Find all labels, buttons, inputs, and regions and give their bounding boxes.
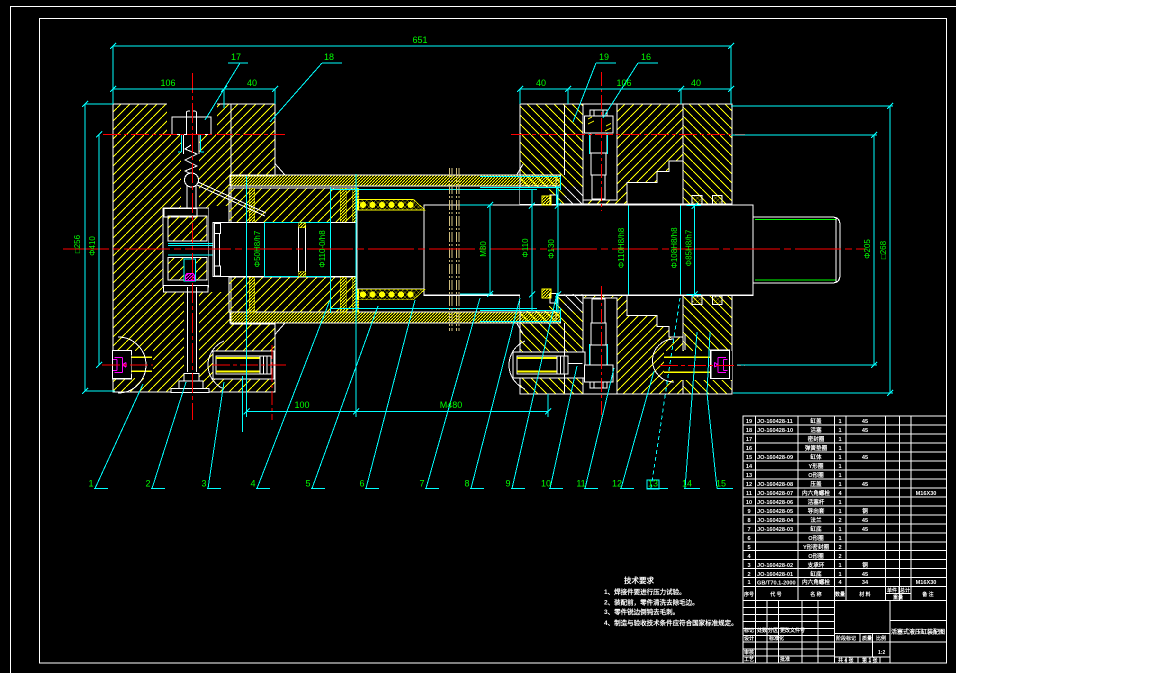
svg-text:JO-160428-01: JO-160428-01 xyxy=(757,572,793,578)
main axis xyxy=(63,248,866,250)
barrel wall insert segment lower xyxy=(520,312,561,323)
svg-text:3: 3 xyxy=(201,479,206,489)
valve insert upper xyxy=(168,216,207,241)
svg-text:651: 651 xyxy=(412,35,427,45)
svg-text:17: 17 xyxy=(231,52,241,62)
svg-text:技术要求: 技术要求 xyxy=(624,575,654,585)
dim 130 xyxy=(557,186,559,313)
svg-text:Y形密封圈: Y形密封圈 xyxy=(803,543,830,551)
svg-text:密封圈: 密封圈 xyxy=(808,435,825,443)
right end cap upper xyxy=(683,104,732,204)
bolt hole lower-left of right assembly xyxy=(513,352,585,378)
gland seal strip u1 xyxy=(249,188,255,223)
right end cap lower xyxy=(683,294,732,394)
svg-text:压盖: 压盖 xyxy=(810,480,822,488)
svg-text:45: 45 xyxy=(862,572,868,578)
svg-text:Φ110-0/h8: Φ110-0/h8 xyxy=(318,230,327,268)
svg-text:JO-160428-02: JO-160428-02 xyxy=(757,563,793,569)
svg-text:代 号: 代 号 xyxy=(769,591,781,598)
bolt pocket bottom left assembly xyxy=(213,351,274,379)
dim 106/40 left xyxy=(113,88,275,90)
svg-text:1: 1 xyxy=(838,446,841,452)
rod section B main xyxy=(424,205,753,295)
dim 110 xyxy=(531,190,533,310)
svg-text:1: 1 xyxy=(838,464,841,470)
leader 12 xyxy=(620,371,654,489)
svg-text:5: 5 xyxy=(747,545,750,551)
svg-text:34: 34 xyxy=(862,580,869,586)
plunger axis xyxy=(192,73,194,420)
leader 11 xyxy=(584,368,614,489)
svg-text:1: 1 xyxy=(838,482,841,488)
right bolt axis upper xyxy=(601,72,603,211)
svg-text:铜: 铜 xyxy=(862,561,868,569)
right assembly bore dims xyxy=(628,206,630,295)
svg-text:内六角螺栓: 内六角螺栓 xyxy=(802,578,830,586)
o-ring flange joint lower xyxy=(542,289,551,298)
right flange block lower xyxy=(520,294,583,394)
svg-text:3、零件锐边倒钝去毛刺。: 3、零件锐边倒钝去毛刺。 xyxy=(604,607,679,616)
bolt left-assembly lower: shaft xyxy=(216,356,260,374)
valve insert lower xyxy=(168,258,207,281)
output shaft threaded end xyxy=(753,217,840,283)
svg-text:40: 40 xyxy=(536,78,546,88)
svg-text:JO-160428-07: JO-160428-07 xyxy=(757,491,793,497)
svg-text:M80: M80 xyxy=(479,241,488,257)
svg-text:106: 106 xyxy=(160,78,175,88)
valve lower pocket xyxy=(184,259,196,281)
o-ring end cap u1 xyxy=(692,196,702,205)
flange hub white-hatch patch lower xyxy=(565,294,583,312)
bottom bolt left xyxy=(102,364,153,366)
svg-text:工艺: 工艺 xyxy=(744,656,754,663)
row lines xyxy=(743,425,947,577)
svg-text:设计: 设计 xyxy=(744,635,754,642)
top bolt circle left xyxy=(103,134,285,136)
bottom bolt: hole tip xyxy=(592,299,605,323)
left vertical dim 256 xyxy=(84,104,86,391)
svg-text:2: 2 xyxy=(838,545,841,551)
bolt right magenta: shaft xyxy=(664,355,711,375)
svg-text:8: 8 xyxy=(747,518,750,524)
gland right face xyxy=(356,188,358,313)
svg-text:45: 45 xyxy=(862,419,868,425)
top bolt: hole tip xyxy=(592,175,605,199)
svg-text:14: 14 xyxy=(682,479,692,489)
thread end line xyxy=(835,217,837,283)
gland step notch lower xyxy=(627,294,683,337)
leader 3 xyxy=(207,382,224,489)
svg-text:缸底: 缸底 xyxy=(810,525,822,533)
svg-text:106: 106 xyxy=(616,78,631,88)
spring xyxy=(185,145,197,174)
bottom bolt: shaft xyxy=(590,345,607,365)
drain channel xyxy=(184,287,199,378)
o-ring end cap l2 xyxy=(713,296,723,305)
svg-text:铜: 铜 xyxy=(862,507,868,515)
column lines xyxy=(756,416,912,601)
head bore xyxy=(209,206,229,292)
lever arm xyxy=(198,182,266,213)
piston joint cyan xyxy=(264,223,266,277)
svg-text:5: 5 xyxy=(305,479,310,489)
svg-text:□256: □256 xyxy=(73,234,82,253)
svg-text:14: 14 xyxy=(746,464,753,470)
leader 7 xyxy=(425,298,480,489)
svg-text:更改文件号: 更改文件号 xyxy=(780,627,805,634)
svg-text:15: 15 xyxy=(716,479,726,489)
svg-text:活塞式液压缸装配图: 活塞式液压缸装配图 xyxy=(891,628,945,636)
bolt left magenta: shaft xyxy=(131,355,152,374)
bottom bolt right xyxy=(660,365,745,367)
leader 14 xyxy=(684,332,700,489)
svg-text:M16X30: M16X30 xyxy=(916,491,937,497)
svg-text:9: 9 xyxy=(747,509,750,515)
bolt right step xyxy=(684,334,686,350)
svg-text:18: 18 xyxy=(746,428,752,434)
svg-text:Φ110: Φ110 xyxy=(521,238,530,258)
cavity floor xyxy=(163,286,208,292)
spring pocket walls xyxy=(184,134,200,154)
bolt right-assembly lower-left: head xyxy=(557,356,568,374)
valve cavity xyxy=(163,208,209,287)
inner border frame xyxy=(40,19,947,664)
svg-text:JO-160428-04: JO-160428-04 xyxy=(757,518,794,524)
svg-text:1: 1 xyxy=(838,428,841,434)
leader 9 xyxy=(511,298,556,489)
leader 17 xyxy=(205,63,248,120)
svg-text:JO-160428-09: JO-160428-09 xyxy=(757,455,793,461)
svg-text:共 4 张: 共 4 张 xyxy=(838,657,855,664)
svg-text:40: 40 xyxy=(691,78,701,88)
bottom bolt: thread xyxy=(591,323,606,345)
plunger cap xyxy=(172,117,211,135)
leader 15 xyxy=(707,332,733,489)
svg-text:1: 1 xyxy=(838,437,841,443)
drain foot step1 xyxy=(184,374,199,382)
rod mid section xyxy=(357,210,424,289)
svg-text:Φ85H8/h7: Φ85H8/h7 xyxy=(685,229,694,266)
svg-text:总计: 总计 xyxy=(900,587,910,594)
svg-text:标准化: 标准化 xyxy=(768,635,784,642)
svg-text:4、制造与验收技术条件应符合国家标准规定。: 4、制造与验收技术条件应符合国家标准规定。 xyxy=(604,618,738,627)
svg-text:阶段标记: 阶段标记 xyxy=(836,635,856,642)
svg-text:活塞: 活塞 xyxy=(810,426,822,434)
svg-text:批准: 批准 xyxy=(780,656,790,663)
leader 18 xyxy=(270,63,342,122)
o-ring flange joint upper xyxy=(542,196,551,205)
svg-text:8: 8 xyxy=(464,479,469,489)
svg-text:Y形圈: Y形圈 xyxy=(809,462,824,470)
leader 8 xyxy=(470,298,520,489)
svg-text:JO-160428-05: JO-160428-05 xyxy=(757,509,793,515)
cylinder head left flange plate xyxy=(113,104,275,392)
svg-text:6: 6 xyxy=(747,536,750,542)
svg-text:O形圈: O形圈 xyxy=(808,471,824,479)
svg-text:1、焊接件要进行压力试验。: 1、焊接件要进行压力试验。 xyxy=(604,587,686,596)
svg-text:18: 18 xyxy=(324,52,334,62)
flange hub notch lower xyxy=(550,293,557,303)
svg-text:审核: 审核 xyxy=(744,649,754,656)
spring channel xyxy=(181,134,199,208)
leader 1 xyxy=(94,384,143,489)
thread minor line top xyxy=(755,219,836,221)
left vertical dim 410 xyxy=(98,135,100,366)
svg-text:分区: 分区 xyxy=(768,627,778,634)
gland seal strip l1 xyxy=(249,277,255,312)
svg-text:1: 1 xyxy=(838,500,841,506)
svg-text:处数: 处数 xyxy=(756,627,768,634)
svg-text:缸底: 缸底 xyxy=(810,570,822,578)
bottom bolt pocket right xyxy=(583,298,617,394)
right gland body lower xyxy=(583,294,683,394)
dim 651 line xyxy=(113,45,731,47)
svg-text:1: 1 xyxy=(838,455,841,461)
svg-text:10: 10 xyxy=(541,479,551,489)
svg-text:支承环: 支承环 xyxy=(807,561,825,569)
valve cyan line 1 xyxy=(168,243,213,245)
top bolt circle right xyxy=(511,134,745,136)
left bolt circle vertical xyxy=(271,345,273,420)
valve magenta dome xyxy=(186,274,195,281)
svg-text:M16X30: M16X30 xyxy=(916,580,937,586)
svg-text:JO-160428-11: JO-160428-11 xyxy=(757,419,793,425)
left grid rows xyxy=(743,608,835,657)
svg-text:12: 12 xyxy=(612,479,622,489)
svg-text:Φ205: Φ205 xyxy=(863,239,872,259)
svg-text:活塞杆: 活塞杆 xyxy=(808,498,825,506)
svg-text:序号: 序号 xyxy=(743,591,754,598)
svg-text:45: 45 xyxy=(862,482,868,488)
svg-text:1: 1 xyxy=(747,580,750,586)
plunger pocket guide cyan xyxy=(178,134,204,152)
rod ring seal upper xyxy=(299,223,306,228)
o-ring end cap l1 xyxy=(692,296,702,305)
plunger pocket xyxy=(167,103,217,134)
head joint line xyxy=(230,104,232,188)
svg-text:13: 13 xyxy=(746,473,752,479)
svg-text:第 1 张: 第 1 张 xyxy=(862,657,879,664)
svg-text:O形圈: O形圈 xyxy=(808,552,824,560)
wear ring strip upper xyxy=(358,200,425,211)
leader 13 dashed xyxy=(647,480,668,489)
svg-text:2、装配前，零件清洗去除毛边。: 2、装配前，零件清洗去除毛边。 xyxy=(604,598,699,607)
valve seat xyxy=(164,208,197,217)
bolt hole lower-right magenta xyxy=(664,351,732,380)
piston rod band xyxy=(213,223,357,277)
svg-text:JO-160428-10: JO-160428-10 xyxy=(757,428,793,434)
thread minor line bottom xyxy=(755,279,836,281)
svg-text:M480: M480 xyxy=(440,400,463,410)
bolt right pocket xyxy=(711,350,730,378)
flange lower-left cutout lower xyxy=(520,294,549,311)
svg-text:2: 2 xyxy=(145,479,150,489)
bottom dim 100 / M480 xyxy=(247,411,549,413)
cylinder barrel top wall xyxy=(230,175,556,186)
svg-text:Φ130: Φ130 xyxy=(547,239,556,259)
leader 2 xyxy=(151,382,186,489)
svg-text:2: 2 xyxy=(838,518,841,524)
rod joint cyan 2 xyxy=(329,187,331,313)
svg-text:JO-160428-06: JO-160428-06 xyxy=(757,500,793,506)
svg-text:JO-160428-03: JO-160428-03 xyxy=(757,527,793,533)
svg-text:1: 1 xyxy=(838,572,841,578)
stem below ball xyxy=(186,186,188,208)
bolt right-assembly lower-left: shaft xyxy=(517,356,557,374)
svg-text:内六角螺栓: 内六角螺栓 xyxy=(802,489,830,497)
svg-text:备 注: 备 注 xyxy=(921,591,933,598)
header row xyxy=(743,587,947,601)
valve cyan line 2 xyxy=(168,245,213,247)
bolt right magenta head xyxy=(715,358,728,373)
gland block lower xyxy=(229,277,357,312)
right flange block upper xyxy=(520,104,583,204)
flange joint line lower xyxy=(565,323,583,393)
svg-text:11: 11 xyxy=(576,479,585,489)
svg-text:数量: 数量 xyxy=(835,591,845,598)
svg-text:□268: □268 xyxy=(879,240,888,259)
plunger stem top xyxy=(187,111,197,134)
drain base plate xyxy=(171,389,209,393)
gland step notch upper xyxy=(627,161,683,204)
left grid columns xyxy=(756,601,835,664)
svg-text:1: 1 xyxy=(838,509,841,515)
flange hub notch upper xyxy=(550,195,557,205)
svg-text:法兰: 法兰 xyxy=(810,516,822,524)
right vertical dim 205 xyxy=(873,135,875,365)
svg-text:1: 1 xyxy=(838,563,841,569)
piston face bracket lower xyxy=(215,266,221,276)
bolt pocket bottom-left magenta bolt xyxy=(113,351,153,378)
gland seal strip u3 xyxy=(353,188,359,223)
svg-text:45: 45 xyxy=(862,455,868,461)
svg-text:1: 1 xyxy=(838,527,841,533)
svg-text:材 料: 材 料 xyxy=(859,591,870,598)
svg-text:2: 2 xyxy=(838,554,841,560)
svg-text:2: 2 xyxy=(747,572,750,578)
svg-text:10: 10 xyxy=(746,500,752,506)
flange joint line upper xyxy=(565,105,583,175)
flange hub white-hatch patch upper xyxy=(565,187,583,205)
right bolt axis lower xyxy=(601,286,603,420)
flange lower-left cutout upper xyxy=(520,187,549,204)
gland seal strip u2 xyxy=(340,188,346,223)
rod ring seal lower xyxy=(299,272,306,277)
svg-text:Φ410: Φ410 xyxy=(88,236,97,256)
wear ring strip lower xyxy=(358,289,425,300)
svg-text:45: 45 xyxy=(862,518,868,524)
rod thread dim M80 xyxy=(489,205,491,294)
svg-text:名 称: 名 称 xyxy=(810,591,821,598)
piston face bracket upper xyxy=(215,224,221,234)
o-ring end cap u2 xyxy=(713,196,723,205)
svg-text:40: 40 xyxy=(247,78,257,88)
svg-text:Φ50H8/h7: Φ50H8/h7 xyxy=(253,230,262,267)
svg-text:比例: 比例 xyxy=(876,635,886,642)
spot face arc right bolt xyxy=(509,341,525,389)
drain foot step2 xyxy=(179,381,203,389)
svg-text:17: 17 xyxy=(746,437,752,443)
svg-text:12: 12 xyxy=(746,482,752,488)
svg-text:1: 1 xyxy=(838,419,841,425)
barrel wall insert segment upper xyxy=(520,175,561,186)
spot face arc magenta bolt xyxy=(653,339,675,382)
svg-text:6: 6 xyxy=(359,479,364,489)
cylinder barrel bottom wall xyxy=(230,312,556,323)
svg-text:GB/T70.1-2000: GB/T70.1-2000 xyxy=(757,581,796,587)
svg-text:1: 1 xyxy=(838,473,841,479)
cyan vline at flange notch upper xyxy=(556,186,558,312)
drain rod xyxy=(187,287,189,372)
bolt left magenta: pocket xyxy=(112,351,131,379)
bolt left-assembly lower: head xyxy=(260,356,271,374)
svg-text:16: 16 xyxy=(746,446,752,452)
middle verticals xyxy=(889,601,891,664)
right gland body upper xyxy=(583,104,683,204)
svg-text:7: 7 xyxy=(419,479,424,489)
gland block upper xyxy=(229,188,357,223)
svg-text:1:2: 1:2 xyxy=(878,650,885,656)
valve cyan line 3 xyxy=(168,254,213,256)
svg-text:100: 100 xyxy=(294,400,309,410)
svg-text:缸体: 缸体 xyxy=(810,453,822,461)
bottom bolt: head xyxy=(585,365,614,382)
svg-text:9: 9 xyxy=(505,479,510,489)
bolt left magenta: head xyxy=(113,358,126,373)
svg-text:1: 1 xyxy=(88,479,93,489)
top bolt: shaft xyxy=(590,133,607,153)
svg-text:45: 45 xyxy=(862,527,868,533)
leader 16 xyxy=(603,63,658,118)
rod ring xyxy=(298,227,300,273)
svg-text:16: 16 xyxy=(641,52,651,62)
svg-text:JO-160428-08: JO-160428-08 xyxy=(757,482,793,488)
leader 4 xyxy=(256,300,330,489)
spot face arc left bolt2 xyxy=(208,341,224,389)
svg-text:45: 45 xyxy=(862,428,868,434)
ball xyxy=(185,173,199,187)
leader 10 xyxy=(549,366,577,489)
top bolt: thread xyxy=(591,153,606,175)
svg-text:4: 4 xyxy=(250,479,255,489)
tube weld chamfer lower-left xyxy=(275,324,523,335)
svg-text:标记: 标记 xyxy=(743,627,754,634)
svg-text:重量: 重量 xyxy=(893,594,903,601)
spot face arc left magenta bolt xyxy=(118,337,146,393)
svg-text:19: 19 xyxy=(599,52,609,62)
svg-text:11: 11 xyxy=(746,491,752,497)
svg-text:单件: 单件 xyxy=(887,587,897,594)
leader 6 xyxy=(365,300,415,489)
gland seal strip l2 xyxy=(340,277,346,312)
svg-text:导向套: 导向套 xyxy=(808,507,825,515)
svg-text:弹簧垫圈: 弹簧垫圈 xyxy=(805,444,828,452)
svg-text:7: 7 xyxy=(747,527,750,533)
dim 40/106/40 right xyxy=(520,88,731,90)
svg-text:Φ110H8/h8: Φ110H8/h8 xyxy=(617,227,626,268)
top bolt pocket xyxy=(583,104,617,200)
tube end cyan lines lower xyxy=(330,308,561,321)
svg-text:3: 3 xyxy=(747,563,750,569)
svg-text:缸盖: 缸盖 xyxy=(810,417,822,425)
piston left face lines xyxy=(214,223,216,276)
top bolt: head xyxy=(585,116,614,133)
svg-text:Φ108H8/h8: Φ108H8/h8 xyxy=(670,227,679,269)
tube weld chamfer upper-left xyxy=(275,164,523,175)
leader 5 xyxy=(311,306,378,489)
right vertical dim 268 xyxy=(889,106,891,393)
svg-text:13: 13 xyxy=(648,479,658,489)
